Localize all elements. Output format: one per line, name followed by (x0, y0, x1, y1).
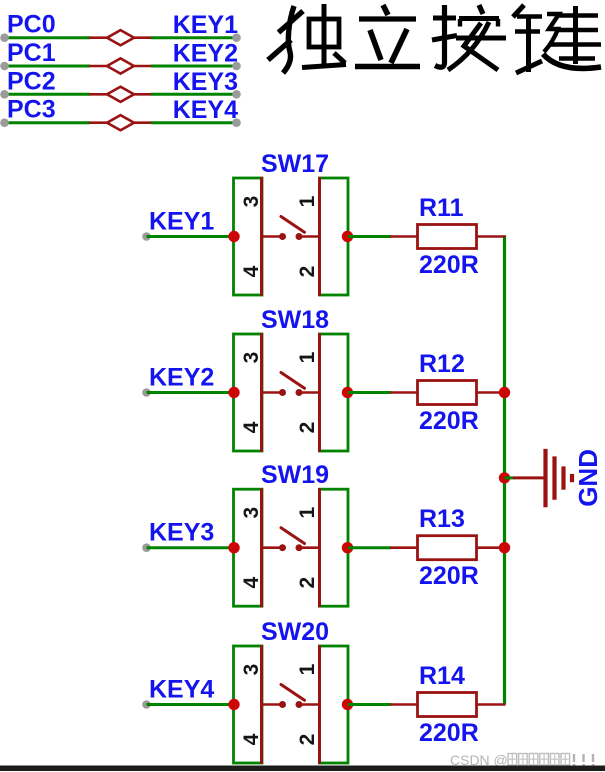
resistor R12 body (418, 381, 477, 405)
terminal dot KEY4 top (232, 118, 241, 127)
switch SW17 lever (281, 217, 305, 233)
svg-text:2: 2 (296, 734, 319, 746)
svg-text:220R: 220R (419, 407, 479, 435)
net tie NT4 diamond (107, 115, 134, 130)
switch SW17 right pin bar (318, 177, 321, 296)
terminal dot PC3 (0, 118, 9, 127)
switch SW17 pin 1 stub (301, 235, 319, 238)
svg-text:KEY1: KEY1 (149, 208, 214, 236)
switch SW20 right pin bar (318, 645, 321, 764)
wire SW19 to R13 (348, 546, 391, 549)
junction dot SW17 right (342, 231, 353, 242)
watermark CSDN (450, 752, 594, 768)
switch SW17 pin 3 stub (263, 235, 280, 238)
wire KEY2 to SW18 (147, 391, 235, 394)
switch SW17 left contact dot (279, 233, 286, 240)
net tie NT3 diamond (107, 87, 134, 102)
svg-text:PC1: PC1 (7, 39, 56, 67)
switch SW18 right pin bar (318, 333, 321, 452)
svg-text:2: 2 (296, 266, 319, 278)
wire net-tie 3 right red segment (134, 93, 152, 96)
wire PC2 left segment (5, 93, 91, 96)
ground bar 2 (552, 456, 556, 499)
svg-text:1: 1 (296, 507, 319, 519)
switch SW18 pin 3 stub (263, 391, 280, 394)
switch SW19 right contact dot (296, 544, 303, 551)
resistor R12 right pin (477, 391, 506, 394)
junction dot R13 at bus (499, 542, 510, 553)
svg-text:4: 4 (240, 733, 263, 745)
switch SW20 left pin bar (260, 645, 263, 764)
svg-text:2: 2 (296, 422, 319, 434)
svg-text:R12: R12 (419, 350, 465, 378)
switch SW19 pin 1 stub (301, 546, 319, 549)
wire KEY2 right segment (151, 65, 237, 68)
resistor R11 right pin (477, 235, 506, 238)
resistor R12 left pin (390, 391, 418, 394)
svg-text:SW20: SW20 (261, 618, 329, 646)
net tie NT2 diamond (107, 58, 134, 73)
wire PC0 left segment (5, 36, 91, 39)
svg-text:1: 1 (296, 663, 319, 675)
terminal dot KEY3 top (232, 90, 241, 99)
ground bar 3 (561, 466, 565, 489)
resistor R14 right pin (477, 703, 506, 706)
wire net-tie 1 left red segment (89, 36, 108, 39)
switch SW17 right box (320, 178, 349, 295)
switch SW19 left contact dot (279, 544, 286, 551)
junction dot SW20 right (342, 699, 353, 710)
svg-text:3: 3 (240, 196, 263, 208)
resistor R13 right pin (477, 546, 506, 549)
terminal dot PC2 (0, 90, 9, 99)
switch SW17 right contact dot (296, 233, 303, 240)
net tie NT1 diamond (107, 30, 134, 45)
terminal dot KEY2 top (232, 62, 241, 71)
svg-text:KEY4: KEY4 (149, 676, 214, 704)
wire KEY3 to SW19 (147, 546, 235, 549)
switch SW20 left contact dot (279, 701, 286, 708)
terminal dot KEY4 (142, 700, 151, 709)
resistor R11 left pin (390, 235, 418, 238)
wire net-tie 2 left red segment (89, 65, 108, 68)
terminal dot PC1 (0, 62, 9, 71)
svg-text:220R: 220R (419, 562, 479, 590)
junction dot KEY4 at SW20 left (228, 699, 239, 710)
svg-text:SW18: SW18 (261, 306, 329, 334)
switch SW17 left box (234, 178, 263, 295)
svg-text:4: 4 (240, 265, 263, 277)
svg-text:3: 3 (240, 507, 263, 519)
title text 独立按键 (268, 4, 601, 73)
wire net-tie 1 right red segment (134, 36, 152, 39)
svg-text:220R: 220R (419, 719, 479, 747)
switch SW17 left pin bar (260, 177, 263, 296)
wire SW17 to R11 (348, 235, 391, 238)
switch SW19 right box (320, 489, 349, 606)
wire net-tie 3 left red segment (89, 93, 108, 96)
switch SW20 right contact dot (296, 701, 303, 708)
switch SW20 left box (234, 646, 263, 763)
svg-text:KEY2: KEY2 (149, 364, 214, 392)
terminal dot KEY3 (142, 543, 151, 552)
resistor R11 body (418, 225, 477, 249)
svg-text:R11: R11 (419, 194, 464, 222)
resistor R13 left pin (390, 546, 418, 549)
junction dot KEY2 at SW18 left (228, 387, 239, 398)
svg-text:KEY2: KEY2 (173, 40, 238, 68)
svg-text:3: 3 (240, 352, 263, 364)
wire KEY1 right segment (151, 36, 237, 39)
switch SW20 pin 3 stub (263, 703, 280, 706)
switch SW18 pin 1 stub (301, 391, 319, 394)
switch SW19 pin 3 stub (263, 546, 280, 549)
junction dot GND at bus (499, 472, 510, 483)
svg-text:GND: GND (573, 449, 603, 507)
svg-text:1: 1 (296, 351, 319, 363)
svg-text:KEY1: KEY1 (173, 11, 238, 39)
switch SW19 left pin bar (260, 488, 263, 607)
svg-text:KEY3: KEY3 (149, 519, 214, 547)
svg-text:PC2: PC2 (7, 67, 56, 95)
svg-text:PC3: PC3 (7, 96, 56, 124)
junction dot KEY3 at SW19 left (228, 542, 239, 553)
wire PC1 left segment (5, 65, 91, 68)
wire KEY4 right segment (151, 121, 237, 124)
wire net-tie 2 right red segment (134, 65, 152, 68)
wire GND stub (513, 476, 545, 479)
junction dot R12 at bus (499, 387, 510, 398)
wire net-tie 4 left red segment (89, 121, 108, 124)
ground bar 4 (570, 474, 574, 482)
switch SW18 right contact dot (296, 389, 303, 396)
wire bus to GND green stub (505, 476, 515, 479)
resistor R14 body (418, 693, 477, 717)
wire PC3 left segment (5, 121, 91, 124)
svg-text:PC0: PC0 (7, 11, 56, 39)
wire net-tie 4 right red segment (134, 121, 152, 124)
svg-text:SW17: SW17 (261, 150, 329, 178)
wire GND bus vertical (503, 235, 506, 704)
terminal dot PC0 (0, 33, 9, 42)
svg-text:2: 2 (296, 577, 319, 589)
junction dot SW18 right (342, 387, 353, 398)
svg-text:KEY4: KEY4 (173, 96, 238, 124)
svg-text:4: 4 (240, 577, 263, 589)
switch SW18 left contact dot (279, 389, 286, 396)
terminal dot KEY2 (142, 388, 151, 397)
wire KEY1 to SW17 (147, 235, 235, 238)
svg-text:3: 3 (240, 664, 263, 676)
bottom black bar (0, 766, 605, 772)
wire SW18 to R12 (348, 391, 391, 394)
resistor R13 body (418, 536, 477, 560)
switch SW18 right box (320, 334, 349, 451)
switch SW19 left box (234, 489, 263, 606)
svg-text:220R: 220R (419, 251, 479, 279)
switch SW20 right box (320, 646, 349, 763)
switch SW19 right pin bar (318, 488, 321, 607)
wire KEY3 right segment (151, 93, 237, 96)
junction dot KEY1 at SW17 left (228, 231, 239, 242)
wire KEY4 to SW20 (147, 703, 235, 706)
terminal dot KEY1 top (232, 33, 241, 42)
svg-text:R14: R14 (419, 662, 465, 690)
ground bar 1 (543, 449, 547, 507)
svg-text:4: 4 (240, 421, 263, 433)
svg-text:1: 1 (296, 195, 319, 207)
switch SW18 left box (234, 334, 263, 451)
switch SW18 lever (281, 373, 305, 389)
svg-text:KEY3: KEY3 (173, 68, 238, 96)
switch SW20 pin 1 stub (301, 703, 319, 706)
svg-text:SW19: SW19 (261, 461, 329, 489)
junction dot SW19 right (342, 542, 353, 553)
switch SW20 lever (281, 685, 305, 701)
switch SW19 lever (281, 528, 305, 544)
wire SW20 to R14 (348, 703, 391, 706)
resistor R14 left pin (390, 703, 418, 706)
terminal dot KEY1 (142, 232, 151, 241)
switch SW18 left pin bar (260, 333, 263, 452)
svg-text:R13: R13 (419, 505, 465, 533)
